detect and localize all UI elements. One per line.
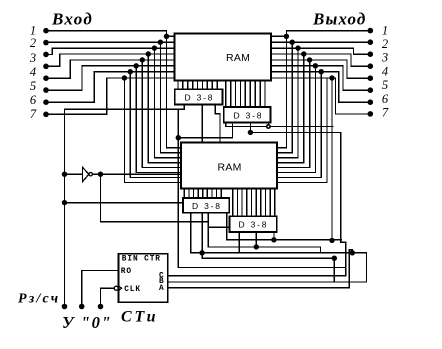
wire bus y240: [227, 239, 342, 241]
decoder D4: [230, 216, 277, 232]
decoder D2: [224, 107, 271, 123]
svg-text:6: 6: [382, 92, 389, 106]
control drop right rail: [331, 78, 333, 240]
wire STi clock to counter CLK: [101, 288, 115, 306]
wire output 7: [271, 72, 370, 103]
svg-text:BIN CTR: BIN CTR: [122, 255, 161, 263]
right bus drop 2: [277, 42, 292, 153]
wire output 2: [271, 41, 370, 43]
RAM U2: [181, 142, 277, 188]
bus drop 2: [159, 42, 161, 153]
wire D1 addr A to Rz rail: [65, 105, 185, 110]
wire output 1: [271, 31, 370, 37]
bus drop 4: [147, 54, 149, 163]
bus drop 5: [141, 60, 143, 168]
svg-text:Рз/сч: Рз/сч: [18, 292, 60, 307]
inverter U3: [83, 167, 89, 181]
wire counter B riser: [168, 253, 367, 282]
wire D2 pin3 with inverted circle: [267, 123, 269, 125]
wire D3 pin2 down: [201, 213, 203, 259]
bus drop 7: [129, 72, 131, 178]
wire Rz rail to D3: [65, 202, 184, 204]
decoder D1: [175, 89, 223, 104]
svg-text:5: 5: [382, 78, 388, 92]
wire inverter output to RAM2: [92, 173, 181, 175]
node D2 pin2 junction dot: [248, 130, 253, 135]
junction dots right diagonal: [284, 34, 335, 81]
wire inverter output down: [101, 174, 209, 221]
bus drop 6: [135, 66, 137, 173]
wire output 6: [271, 66, 370, 90]
wire Rz/sch control input: [46, 78, 175, 114]
node D3 pin2 junction dot: [199, 250, 204, 255]
input terminal dots: [43, 28, 49, 117]
wire output 4: [271, 54, 370, 66]
svg-text:D 3-8: D 3-8: [239, 219, 269, 229]
comb RAM2 to D4: [233, 189, 275, 217]
wire input 4: [46, 54, 175, 66]
wire output 3: [271, 48, 370, 54]
wire input 6: [46, 66, 175, 90]
right bus drop 7: [277, 72, 321, 178]
right bus drop 5: [277, 60, 310, 168]
counter CLK bubble: [114, 286, 118, 290]
svg-text:7: 7: [30, 107, 37, 121]
svg-text:1: 1: [382, 23, 388, 37]
wire D2 pin1 to node A: [178, 123, 232, 138]
wire input 1: [46, 31, 175, 37]
node Rz rail D3 tap: [62, 200, 67, 205]
counter CLK edge wedge: [119, 286, 122, 290]
svg-text:6: 6: [30, 93, 37, 107]
svg-text:3: 3: [381, 51, 388, 65]
decoder D3: [183, 198, 229, 213]
bus drop 8 control: [123, 78, 125, 182]
svg-text:У "0": У "0": [62, 313, 112, 332]
comb RAM1 to D1: [178, 81, 217, 90]
node control drop junction dot: [329, 238, 334, 243]
wire input 5: [46, 60, 175, 78]
svg-text:RO: RO: [121, 268, 132, 276]
wire D4 pin3: [273, 232, 275, 240]
node inverter output junction: [98, 172, 103, 177]
terminal dots bottom: [62, 304, 104, 310]
wire counter C to riser: [168, 275, 346, 277]
Rz/sch vertical rail: [64, 109, 66, 306]
wire inverter input: [65, 173, 83, 175]
svg-text:Вход: Вход: [51, 10, 93, 29]
wire node A to lower right: [178, 267, 345, 269]
wire bus y252.8: [191, 252, 366, 254]
node A junction dot: [176, 135, 181, 140]
counter U5: [119, 254, 168, 303]
wire D2 pin2 via dot to right riser: [250, 123, 345, 276]
wire input 7: [46, 72, 175, 103]
wire bus y246.9: [208, 247, 320, 253]
comb RAM1 to D2: [226, 81, 265, 108]
bus drop 1: [166, 36, 168, 147]
wire D4 pin2: [255, 232, 257, 247]
wire U0 to counter RO: [82, 270, 119, 306]
svg-text:2: 2: [382, 37, 388, 51]
right bus drop 6: [277, 66, 315, 173]
svg-text:4: 4: [382, 64, 388, 78]
svg-text:CLK: CLK: [124, 286, 141, 294]
svg-text:Выход: Выход: [312, 10, 366, 29]
wire D1 addr C down: [215, 105, 220, 143]
svg-text:RAM: RAM: [218, 162, 242, 174]
wire output 5: [271, 60, 370, 78]
node Rz rail inverter tap: [62, 172, 67, 177]
node bus y258 junction dot: [332, 256, 337, 261]
svg-text:3: 3: [29, 51, 36, 65]
wire output 8 control: [271, 78, 370, 114]
junction dots left diagonal: [122, 34, 169, 81]
svg-text:D 3-8: D 3-8: [192, 201, 222, 211]
node D2 pin3 ring junction: [266, 124, 271, 129]
wire D3 pin3 tap to D4: [208, 226, 229, 228]
right bus drop 1: [277, 36, 286, 147]
output terminal dots: [368, 28, 374, 117]
comb RAM2 to D3: [184, 189, 221, 199]
wire input 2: [46, 41, 175, 43]
wire D4 pin1: [238, 232, 240, 253]
svg-text:RAM: RAM: [226, 52, 250, 64]
wire bus y258.2: [202, 257, 334, 259]
svg-text:5: 5: [30, 79, 36, 93]
svg-text:4: 4: [30, 65, 36, 79]
node D4 pin2 junction dot: [254, 244, 259, 249]
RAM U1: [175, 34, 272, 81]
bus drop 3: [153, 48, 155, 158]
node A vertical rail: [177, 109, 179, 267]
svg-text:A: A: [159, 285, 165, 293]
wire input 3: [46, 48, 175, 54]
svg-text:7: 7: [382, 106, 389, 120]
node bus B junction dot: [350, 250, 355, 255]
svg-text:2: 2: [30, 36, 36, 50]
right bus drop 8: [277, 78, 327, 182]
wire D1 addr B down: [201, 105, 203, 143]
right bus drop 3: [277, 48, 298, 158]
svg-text:СТи: СТи: [121, 309, 158, 326]
wire counter A riser with jog: [168, 250, 353, 288]
node D4 pin3 junction dot: [271, 237, 276, 242]
svg-text:D 3-8: D 3-8: [185, 92, 215, 102]
wire bus y258 drop: [333, 258, 335, 282]
svg-text:D 3-8: D 3-8: [234, 110, 264, 120]
right bus drop 4: [277, 54, 304, 163]
